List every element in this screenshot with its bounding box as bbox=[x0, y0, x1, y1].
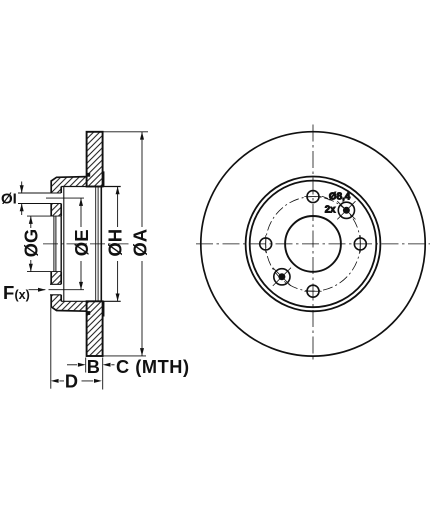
svg-text:Ø8,4: Ø8,4 bbox=[329, 192, 351, 203]
ØA extension line top bbox=[103, 131, 148, 133]
bolt hole right bbox=[354, 235, 366, 252]
bolt hole centerline upper bbox=[46, 197, 84, 199]
brake band lower (hatched section) bbox=[87, 301, 103, 356]
bolt hole centerline lower bbox=[49, 289, 85, 291]
dimension ØE (bolt circle) bbox=[71, 198, 92, 290]
svg-text:(x): (x) bbox=[15, 288, 30, 302]
mounting wall block between bolt hole and bore (upper) bbox=[51, 204, 61, 217]
wall inboard face bbox=[60, 187, 62, 302]
F(x) label and arrow bbox=[3, 282, 46, 303]
main horizontal centerline bbox=[196, 243, 430, 245]
bore chamfer projection lines bbox=[54, 216, 56, 272]
axis centerline bbox=[43, 243, 130, 245]
svg-text:ØH: ØH bbox=[105, 229, 126, 257]
dimension D bbox=[51, 371, 102, 391]
band right edge step (upper) bbox=[103, 172, 104, 187]
label Ø8,4 2x bbox=[322, 192, 351, 216]
svg-text:ØE: ØE bbox=[71, 229, 92, 256]
dimension ØH bbox=[105, 187, 126, 302]
hat barrel upper (hatched section) bbox=[51, 177, 86, 193]
hat wall corner circle bbox=[250, 181, 377, 308]
dimension ØG (centre bore) bbox=[22, 216, 42, 272]
dimension B bbox=[67, 357, 100, 377]
wall inboard face edge across bore bbox=[60, 216, 62, 272]
centre bore circle ØG bbox=[285, 216, 341, 272]
main vertical centerline bbox=[312, 125, 314, 363]
band right edge step (lower) bbox=[103, 301, 104, 316]
hat barrel lower (hatched section) bbox=[51, 295, 86, 311]
dimension ØA bbox=[129, 132, 150, 356]
cavity projection lines (band/barrel junction circles) bbox=[96, 187, 98, 302]
mounting wall block between bore and bolt hole (lower) bbox=[51, 272, 61, 285]
svg-text:ØA: ØA bbox=[129, 229, 150, 257]
B extension lines bbox=[86, 358, 103, 390]
svg-text:2x: 2x bbox=[325, 205, 336, 216]
brake band upper (hatched section) bbox=[87, 132, 103, 187]
bolt hole bottom bbox=[304, 285, 321, 297]
bolt hole top bbox=[304, 191, 321, 203]
locating screw hole lower-left (Ø8,4) bbox=[273, 268, 291, 286]
D extension line left bbox=[50, 308, 52, 389]
svg-text:ØI: ØI bbox=[1, 190, 17, 207]
hat inner corner fillet projection line bbox=[63, 187, 65, 302]
barrel inner edge + ØH extension (lower) bbox=[61, 300, 120, 302]
barrel inner edge + ØH extension (upper) bbox=[61, 186, 120, 188]
svg-text:C (MTH): C (MTH) bbox=[116, 357, 190, 377]
locating screw hole upper-right (Ø8,4) bbox=[337, 201, 355, 219]
ØA extension line bottom bbox=[103, 355, 146, 357]
center bore edges (ØG) bbox=[27, 216, 61, 272]
bolt hole left bbox=[260, 235, 272, 252]
hat barrel outer circle bbox=[246, 177, 381, 312]
bolt hole bore lines (upper hole) bbox=[18, 193, 61, 204]
bolt hole bore lines (lower hole) bbox=[50, 284, 61, 295]
svg-text:D: D bbox=[65, 371, 78, 391]
svg-text:F: F bbox=[3, 282, 14, 303]
undercut notch lower bbox=[87, 311, 90, 315]
svg-text:B: B bbox=[87, 357, 100, 377]
dimension C (MTH) bbox=[103, 357, 190, 377]
outer circle ØA bbox=[201, 132, 425, 356]
svg-text:ØG: ØG bbox=[22, 229, 42, 257]
undercut notch upper bbox=[87, 173, 90, 177]
bolt circle (dash-dot) bbox=[266, 197, 361, 292]
dimension ØI (bolt hole) bbox=[1, 182, 24, 216]
